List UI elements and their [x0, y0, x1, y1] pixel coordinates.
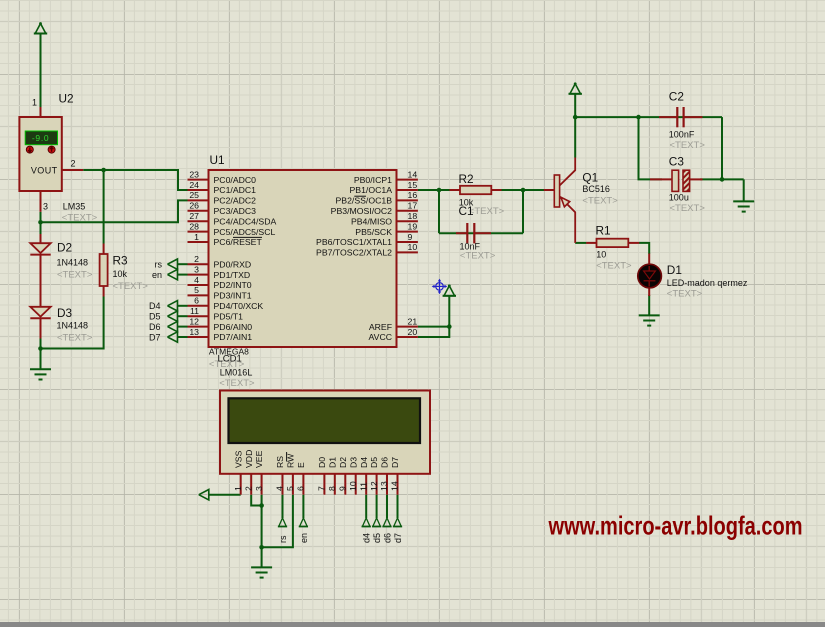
svg-text:LED-madon qermez: LED-madon qermez [667, 278, 748, 288]
terminal arrow left of LCD pin1 [199, 490, 209, 500]
svg-text:10: 10 [348, 481, 358, 491]
U2 pin 1 [40, 107, 42, 117]
svg-text:PD4/T0/XCK: PD4/T0/XCK [214, 301, 264, 311]
origin marker (blue) [434, 280, 446, 292]
U1 pin 5 PD3/INT1 [188, 294, 209, 296]
U1 pin 2 PD0/RXD [188, 263, 209, 265]
U1 pin 27 PC4/ADC4/SDA [188, 220, 209, 222]
terminal d5 under LCD [373, 518, 381, 527]
svg-text:LCD1: LCD1 [218, 354, 242, 365]
wire: right drop C1 to R2 row [522, 190, 524, 233]
svg-text:R3: R3 [113, 254, 129, 268]
wire: U2 VOUT pin2 to U1 pin24 PC1 [83, 170, 187, 190]
svg-text:<TEXT>: <TEXT> [582, 195, 618, 206]
U1 pin 23 PC0/ADC0 [188, 179, 209, 181]
wire: C1 row horizontal [439, 232, 523, 234]
svg-text:D1: D1 [327, 457, 337, 468]
svg-text:VDD: VDD [244, 450, 254, 468]
svg-text:d4: d4 [362, 533, 372, 543]
svg-text:5: 5 [194, 285, 199, 295]
svg-text:3: 3 [194, 264, 199, 274]
wire: LCD pin2 VDD to node [251, 495, 261, 506]
sensor U2 LM35 body [19, 117, 61, 191]
svg-text:D3: D3 [348, 457, 358, 468]
wire: U1 AVCC pin20 to power node [418, 327, 449, 337]
svg-text:D5: D5 [369, 457, 379, 468]
svg-text:1N4148: 1N4148 [57, 321, 89, 331]
svg-text:rs: rs [278, 535, 288, 543]
svg-text:D1: D1 [667, 263, 682, 277]
svg-text:4: 4 [275, 486, 285, 491]
U1 pin 16 PB2/SS/OC1B [397, 199, 418, 201]
svg-text:C2: C2 [669, 90, 684, 104]
LCD pin 12 D5 [376, 474, 378, 495]
Q1 collector pin [560, 158, 576, 186]
terminal d6 under LCD [383, 518, 391, 527]
U1 pin 13 PD7/AIN1 [188, 336, 209, 338]
svg-text:10k: 10k [113, 269, 128, 279]
diode D2 1N4148 [40, 234, 42, 243]
svg-text:D2: D2 [338, 457, 348, 468]
wire: U1 pin15 PB1 to R2 left [418, 189, 451, 191]
U1 pin 9 PB6/TOSC1/XTAL1 [397, 241, 418, 243]
svg-text:D7: D7 [149, 332, 161, 342]
svg-text:10: 10 [408, 242, 418, 252]
svg-text:D3: D3 [57, 306, 73, 320]
svg-text:D0: D0 [317, 457, 327, 468]
wire: node up to power arrow [448, 296, 450, 327]
wire: Q1 collector up to power node [574, 117, 576, 157]
svg-text:6: 6 [194, 296, 199, 306]
U2 display window [25, 131, 57, 145]
power terminal above Q1 [570, 84, 581, 94]
LCD pin 10 D3 [355, 474, 357, 495]
svg-text:www.micro-avr.blogfa.com: www.micro-avr.blogfa.com [548, 511, 803, 541]
LCD pin 3 VEE [261, 474, 263, 495]
U1 pin 21 AREF [397, 326, 418, 328]
svg-text:PB3/MOSI/OC2: PB3/MOSI/OC2 [331, 206, 392, 216]
svg-text:BC516: BC516 [582, 184, 610, 194]
terminal en at U1 [178, 274, 188, 276]
ground symbol under LED [639, 314, 660, 316]
svg-text:PD0/RXD: PD0/RXD [214, 259, 252, 269]
U1 pin 3 PD1/TXD [188, 274, 209, 276]
svg-text:AVCC: AVCC [369, 332, 393, 342]
ground symbol top-right [733, 200, 754, 202]
wire: LCD data pin to terminal d5 [376, 495, 378, 518]
U1 pin 19 PB5/SCK [397, 231, 418, 233]
LCD pin 13 D6 [386, 474, 388, 495]
wire: R2 right to Q1 base [501, 189, 555, 191]
node: junction C2/C3 right [720, 177, 725, 182]
wire: node to R3 bottom [41, 297, 104, 349]
LCD pin 6 E [302, 474, 304, 495]
U1 pin 28 PC5/ADC5/SCL [188, 231, 209, 233]
wire: LED cathode to ground [648, 295, 650, 315]
svg-text:<TEXT>: <TEXT> [62, 213, 98, 224]
wire: LCD pin3 VEE down to ground [261, 495, 263, 568]
wire: LCD data pin to terminal d4 [365, 495, 367, 518]
svg-text:3: 3 [43, 202, 48, 212]
LCD pin 9 D2 [344, 474, 346, 495]
svg-text:D2: D2 [57, 241, 72, 255]
wire: C3 left branch [639, 117, 663, 179]
wire: U2 pin3 node to U1 pin25 PC2 [40, 212, 42, 223]
node: junction collector/power/C2 [573, 115, 578, 120]
node: junction R2/C1 right [521, 188, 526, 193]
U1 pin 18 PB4/MISO [397, 220, 418, 222]
wire: Q1 emitter to R1 [575, 242, 586, 244]
wire: LCD pin5 RW to ground net [262, 495, 293, 548]
wire: C2 right down to C3 row [721, 117, 723, 179]
U2 pin 3 [40, 191, 42, 212]
svg-text:PC4/ADC4/SDA: PC4/ADC4/SDA [214, 216, 277, 226]
wire: R1 right to LED D1 [639, 243, 649, 254]
svg-text:14: 14 [390, 481, 400, 491]
svg-text:D6: D6 [149, 322, 161, 332]
diode D3 1N4148 [30, 307, 50, 317]
svg-text:PD5/T1: PD5/T1 [214, 311, 244, 321]
overline RESET on PC6 [233, 236, 262, 238]
svg-text:<TEXT>: <TEXT> [670, 140, 706, 151]
U1 pin 1 PC6/RESET [188, 241, 209, 243]
svg-text:1: 1 [194, 232, 199, 242]
LCD module LCD1 LM016L body [220, 391, 430, 474]
node: junction C3 left tap [636, 115, 641, 120]
node: junction VDD/VEE [259, 503, 264, 508]
LCD pin 11 D4 [365, 474, 367, 495]
resistor R2 10k [450, 189, 461, 191]
U1 pin 25 PC2/ADC2 [188, 199, 209, 201]
LED D1 [648, 254, 650, 265]
transistor Q1 BC516 [544, 189, 555, 191]
svg-text:2: 2 [71, 159, 76, 169]
overline SS on PB2 [354, 195, 366, 197]
svg-text:9: 9 [408, 232, 413, 242]
LCD pin 4 RS [282, 474, 284, 495]
svg-text:d6: d6 [382, 533, 392, 543]
wire: junction down to D2 [40, 222, 42, 234]
svg-text:4: 4 [194, 275, 199, 285]
terminal rs under LCD [279, 518, 287, 527]
svg-text:R2: R2 [459, 172, 474, 186]
svg-text:PB0/ICP1: PB0/ICP1 [354, 175, 392, 185]
svg-text:LM35: LM35 [63, 202, 86, 212]
svg-text:PB6/TOSC1/XTAL1: PB6/TOSC1/XTAL1 [316, 237, 392, 247]
U1 pin 26 PC3/ADC3 [188, 210, 209, 212]
wire: LCD pin4 RS to terminal rs [282, 495, 284, 518]
U2 pin 2 [62, 169, 83, 171]
LCD pin 2 VDD [250, 474, 252, 495]
capacitor C1 10nF [456, 232, 467, 234]
svg-text:<TEXT>: <TEXT> [596, 261, 632, 272]
U1 pin 24 PC1/ADC1 [188, 189, 209, 191]
svg-text:D7: D7 [390, 457, 400, 468]
svg-text:8: 8 [327, 486, 337, 491]
svg-text:25: 25 [189, 190, 199, 200]
svg-text:RS: RS [275, 456, 285, 468]
svg-text:-9.0: -9.0 [32, 133, 49, 143]
svg-text:2: 2 [243, 486, 253, 491]
node: junction U2 pin3 / D2 anode [38, 220, 43, 225]
LCD pin 7 D0 [323, 474, 325, 495]
svg-text:19: 19 [408, 221, 418, 231]
svg-text:13: 13 [379, 481, 389, 491]
node: junction D3 / R3 bottom / ground [38, 346, 43, 351]
svg-text:en: en [299, 533, 309, 543]
terminal d7 under LCD [394, 518, 402, 527]
svg-text:PB7/TOSC2/XTAL2: PB7/TOSC2/XTAL2 [316, 248, 392, 258]
svg-text:D5: D5 [149, 312, 161, 322]
capacitor C3 100u electrolytic [650, 178, 672, 180]
svg-text:U1: U1 [210, 153, 225, 167]
svg-text:6: 6 [296, 486, 306, 491]
svg-text:100nF: 100nF [669, 130, 695, 140]
svg-text:PC1/ADC1: PC1/ADC1 [214, 185, 257, 195]
ground symbol bottom-left [30, 368, 51, 370]
wire: left drop to C1 row [438, 190, 440, 233]
LCD pin 8 D1 [334, 474, 336, 495]
svg-text:d5: d5 [372, 533, 382, 543]
svg-text:3: 3 [254, 486, 264, 491]
svg-text:<TEXT>: <TEXT> [667, 288, 703, 299]
power terminal AVCC [444, 286, 455, 296]
svg-text:<TEXT>: <TEXT> [57, 270, 93, 281]
U1 pin 15 PB1/OC1A [397, 189, 418, 191]
svg-text:12: 12 [369, 481, 379, 491]
wire: LCD data pin to terminal d6 [386, 495, 388, 518]
node: junction AREF/AVCC [447, 324, 452, 329]
ground symbol under LCD [251, 566, 272, 568]
wire: D3 cathode down to ground node [40, 339, 42, 370]
svg-text:AREF: AREF [369, 322, 392, 332]
terminal D6 at U1 [178, 326, 188, 328]
svg-text:rs: rs [155, 260, 163, 270]
svg-text:PC2/ADC2: PC2/ADC2 [214, 196, 257, 206]
capacitor C2 100nF [659, 116, 677, 118]
wire: U1 AREF pin21 to power node [418, 326, 449, 328]
node: junction VOUT/R3 [101, 168, 106, 173]
resistor R3 10k vertical [103, 244, 105, 255]
svg-text:2: 2 [194, 254, 199, 264]
svg-text:PD1/TXD: PD1/TXD [214, 270, 251, 280]
svg-text:en: en [152, 270, 162, 280]
U1 pin 4 PD2/INT0 [188, 284, 209, 286]
svg-text:7: 7 [317, 486, 327, 491]
svg-text:<TEXT>: <TEXT> [219, 378, 255, 389]
U1 pin 20 AVCC [397, 336, 418, 338]
svg-text:Q1: Q1 [582, 171, 598, 185]
svg-text:1: 1 [32, 98, 37, 108]
svg-text:1: 1 [233, 486, 243, 491]
svg-text:28: 28 [189, 221, 199, 231]
svg-text:PB5/SCK: PB5/SCK [355, 227, 392, 237]
svg-text:15: 15 [408, 180, 418, 190]
U2 adjust knob up [48, 146, 55, 153]
terminal D7 at U1 [178, 336, 188, 338]
terminal D4 at U1 [178, 305, 188, 307]
svg-text:100u: 100u [669, 192, 689, 202]
svg-text:D6: D6 [380, 457, 390, 468]
svg-text:20: 20 [408, 327, 418, 337]
svg-text:13: 13 [189, 327, 199, 337]
svg-text:<TEXT>: <TEXT> [460, 251, 496, 262]
svg-text:<TEXT>: <TEXT> [469, 206, 505, 217]
LCD pin 1 VSS [240, 474, 242, 495]
svg-text:PC6/RESET: PC6/RESET [214, 237, 263, 247]
terminal D5 at U1 [178, 315, 188, 317]
svg-text:d7: d7 [393, 533, 403, 543]
svg-text:24: 24 [189, 180, 199, 190]
wire: LCD pin6 E to terminal en [302, 495, 304, 518]
svg-text:23: 23 [189, 169, 199, 179]
svg-text:PC3/ADC3: PC3/ADC3 [214, 206, 257, 216]
svg-text:E: E [296, 462, 306, 468]
power terminal above U2 [35, 24, 46, 34]
svg-text:PD7/AIN1: PD7/AIN1 [214, 332, 253, 342]
svg-text:10: 10 [596, 250, 606, 260]
wire: C3 right to ground branch [700, 178, 744, 180]
U1 pin 11 PD5/T1 [188, 315, 209, 317]
svg-text:PB1/OC1A: PB1/OC1A [350, 185, 393, 195]
U1 pin 12 PD6/AIN0 [188, 326, 209, 328]
svg-text:26: 26 [189, 201, 199, 211]
U1 pin 17 PB3/MOSI/OC2 [397, 210, 418, 212]
wire: down to ground top-right [743, 179, 745, 201]
svg-text:11: 11 [358, 482, 368, 491]
svg-text:PD3/INT1: PD3/INT1 [214, 291, 252, 301]
svg-text:14: 14 [408, 169, 418, 179]
svg-text:12: 12 [189, 316, 199, 326]
svg-text:C3: C3 [669, 154, 685, 168]
terminal en under LCD [300, 518, 308, 527]
terminal d4 under LCD [362, 518, 370, 527]
svg-text:VSS: VSS [233, 450, 243, 468]
svg-text:16: 16 [408, 190, 418, 200]
LCD pin 5 RW [292, 474, 294, 495]
svg-text:<TEXT>: <TEXT> [113, 281, 149, 292]
svg-text:17: 17 [408, 201, 418, 211]
svg-text:5: 5 [285, 486, 295, 491]
svg-text:PD2/INT0: PD2/INT0 [214, 280, 252, 290]
terminal rs at U1 [178, 263, 188, 265]
overline RW on LCD pin5 [286, 452, 288, 462]
svg-text:VOUT: VOUT [31, 165, 58, 175]
wire: power arrow to U2 pin 1 [40, 34, 42, 108]
svg-text:U2: U2 [59, 92, 74, 106]
svg-text:<TEXT>: <TEXT> [670, 203, 706, 214]
node: junction R2/C1 left [437, 188, 442, 193]
U1 pin 10 PB7/TOSC2/XTAL2 [397, 251, 418, 253]
svg-text:R1: R1 [596, 223, 611, 237]
svg-text:VEE: VEE [254, 450, 264, 468]
wire: top rail to C2 [575, 116, 722, 118]
svg-text:PD6/AIN0: PD6/AIN0 [214, 322, 253, 332]
svg-text:D4: D4 [359, 457, 369, 468]
U1 pin 6 PD4/T0/XCK [188, 305, 209, 307]
svg-text:PB2/SS/OC1B: PB2/SS/OC1B [336, 196, 393, 206]
wire: D3 cathode pin [40, 318, 42, 338]
svg-text:1N4148: 1N4148 [57, 258, 89, 268]
wire: LCD data pin to terminal d7 [397, 495, 399, 518]
Q1 emitter pin with arrow [560, 197, 576, 243]
microcontroller U1 ATMEGA8 body [209, 170, 397, 347]
wire: D2 cathode to D3 anode (red pin) [40, 255, 42, 307]
svg-text:<TEXT>: <TEXT> [57, 333, 93, 344]
node: junction VEE/RW ground net [259, 545, 264, 550]
svg-text:PC5/ADC5/SCL: PC5/ADC5/SCL [214, 227, 276, 237]
wire: junction down to R3 top [103, 170, 105, 244]
svg-text:27: 27 [189, 211, 199, 221]
svg-text:C1: C1 [459, 204, 474, 218]
U1 pin 14 PB0/ICP1 [397, 179, 418, 181]
svg-text:PC0/ADC0: PC0/ADC0 [214, 175, 257, 185]
svg-text:9: 9 [338, 486, 348, 491]
resistor R1 10 [586, 242, 596, 244]
svg-text:21: 21 [408, 316, 418, 326]
svg-text:11: 11 [190, 306, 199, 316]
svg-text:D4: D4 [149, 301, 161, 311]
U2 adjust knob down [26, 146, 33, 153]
svg-text:18: 18 [408, 211, 418, 221]
svg-text:LM016L: LM016L [220, 368, 253, 378]
LCD screen [229, 398, 421, 443]
LCD pin 14 D7 [397, 474, 399, 495]
svg-text:PB4/MISO: PB4/MISO [351, 216, 392, 226]
wire: LCD pin1 VSS to left terminal [209, 494, 241, 496]
